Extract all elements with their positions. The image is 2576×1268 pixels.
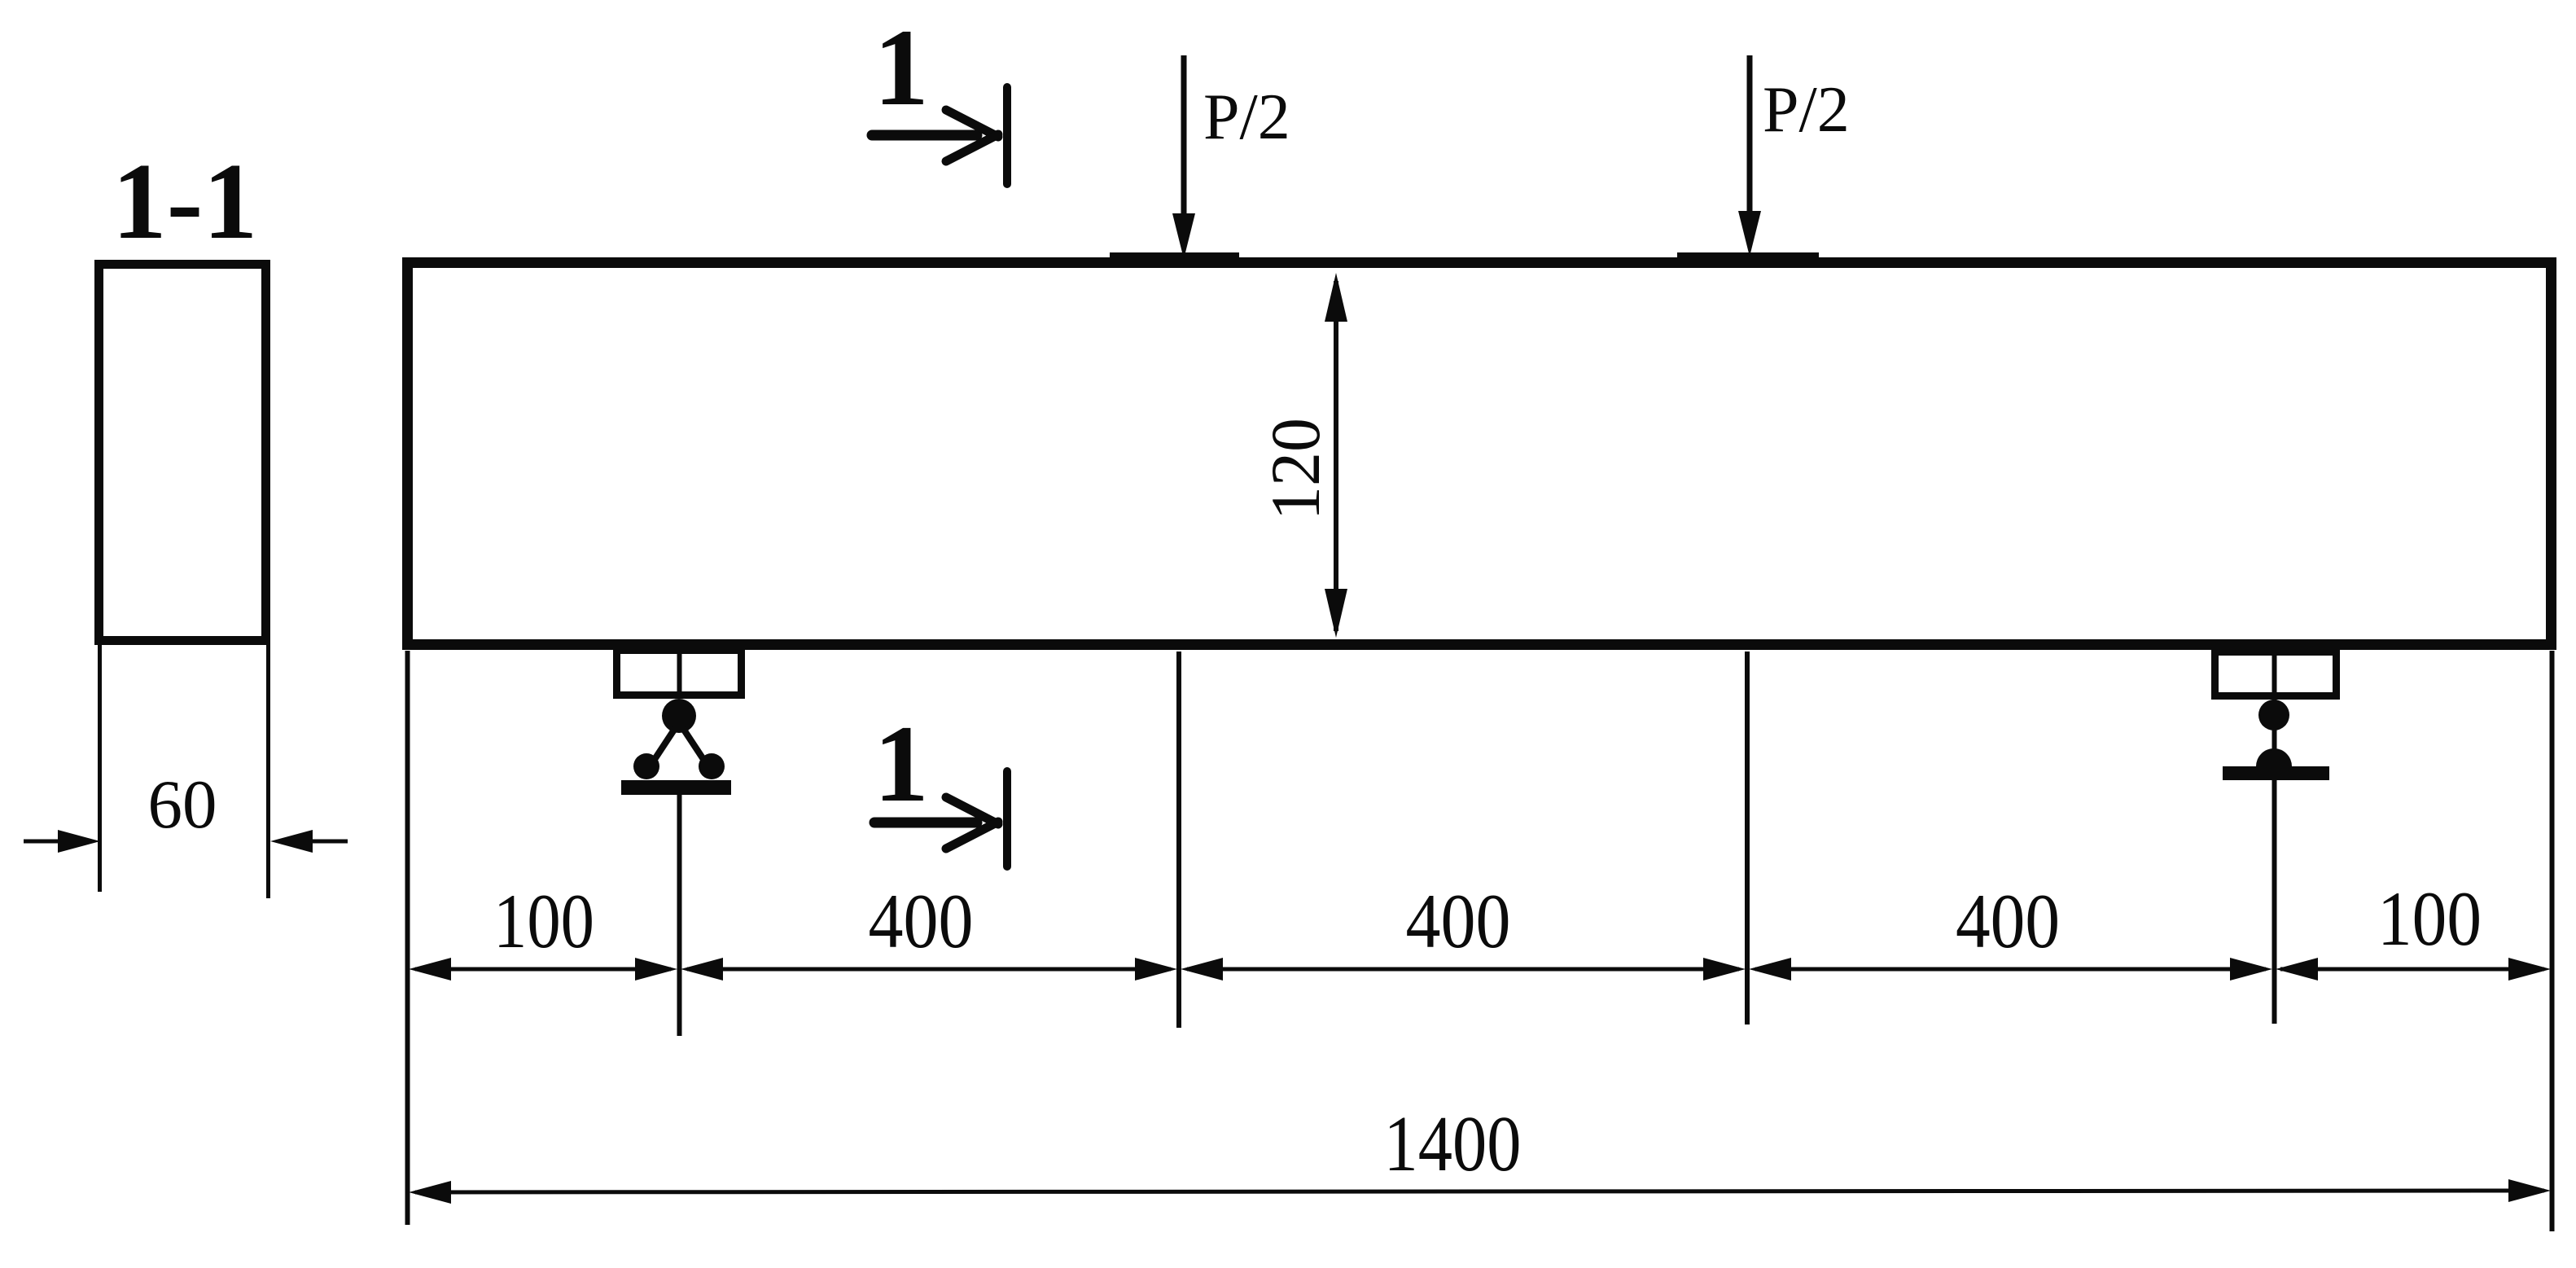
overall dimension 1400: line (409, 1179, 2551, 1204)
svg-text:100: 100 (2377, 875, 2482, 962)
right support centre/extension line (2272, 780, 2277, 1024)
right support base bar (2223, 766, 2329, 780)
cross-section right extension line (266, 645, 270, 898)
section marker top: arrow barbs (946, 110, 998, 137)
left support ball (662, 699, 696, 733)
beam outline (408, 263, 2552, 645)
dimension row: segment 100 right (2276, 958, 2551, 981)
dimension row: segment 400 middle (1181, 958, 1746, 981)
cross-section rectangle (99, 265, 266, 641)
svg-text:P/2: P/2 (1203, 81, 1290, 153)
section marker middle: arrow barbs (946, 797, 998, 824)
section marker top: tick line (1003, 87, 1011, 184)
height dimension 120: top arrow (1325, 273, 1347, 322)
right support ball (2258, 700, 2289, 731)
dimension row: segment 400 first (681, 958, 1177, 981)
dimension row: segment 100 left (409, 958, 677, 981)
left support base bar (621, 780, 731, 795)
extension line beam left (405, 651, 410, 1225)
left support legs (651, 727, 676, 766)
cross-section left extension line (98, 645, 102, 892)
section marker middle: arrow shaft (874, 818, 977, 828)
svg-text:400: 400 (1956, 878, 2060, 964)
section marker middle: tick line (1003, 771, 1011, 867)
right support centre line (2272, 652, 2277, 766)
svg-text:400: 400 (1406, 878, 1511, 964)
svg-text:P/2: P/2 (1763, 74, 1850, 146)
svg-text:120: 120 (1256, 418, 1334, 520)
right support plate (2215, 652, 2337, 696)
extension line beam right (2550, 651, 2555, 1231)
left support plate centre line (677, 650, 682, 699)
section marker top: arrow shaft (872, 130, 977, 141)
svg-text:100: 100 (493, 878, 594, 964)
svg-text:1: 1 (874, 7, 929, 129)
svg-text:60: 60 (148, 766, 217, 843)
height dimension 120: line (1334, 281, 1338, 631)
height dimension 120: bottom arrow (1325, 589, 1347, 638)
left support rollers (633, 753, 659, 779)
dimension 60: left arrow (24, 830, 100, 853)
dimension 60: right arrow (270, 830, 348, 853)
right loading plate on beam top (1677, 252, 1819, 264)
svg-text:1: 1 (874, 704, 929, 825)
left support plate (617, 651, 742, 695)
svg-text:1400: 1400 (1384, 1100, 1522, 1187)
extension line at load left (1176, 652, 1181, 1028)
left loading plate on beam top (1110, 252, 1239, 264)
extension line at load right (1745, 652, 1750, 1024)
load arrow P/2 right (1738, 55, 1761, 257)
svg-text:1-1: 1-1 (112, 141, 258, 261)
load arrow P/2 left (1172, 55, 1195, 259)
dimension row: segment 400 right (1749, 958, 2272, 981)
left support centre/extension line (677, 795, 682, 1036)
svg-text:400: 400 (869, 878, 974, 964)
right support dome (2256, 748, 2292, 766)
